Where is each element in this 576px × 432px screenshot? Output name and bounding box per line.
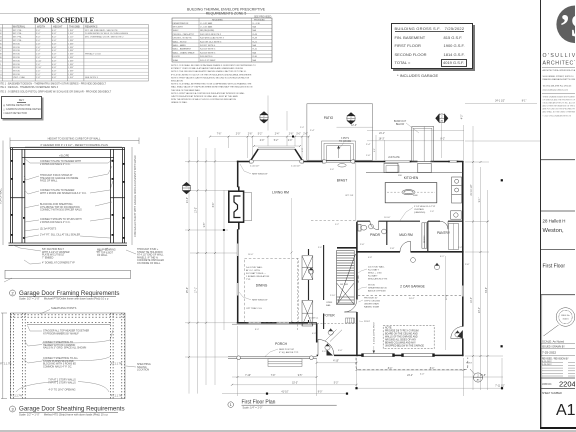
svg-text:4" DOWEL AT CORNERS TYP: 4" DOWEL AT CORNERS TYP — [42, 262, 75, 265]
svg-text:REVISED / REVISION BY: REVISED / REVISION BY — [542, 358, 569, 360]
svg-text:2'-6": 2'-6" — [303, 134, 308, 136]
svg-text:ARCHITECTS: ARCHITECTS — [543, 61, 576, 67]
svg-text:6'-8": 6'-8" — [52, 60, 57, 62]
svg-text:© 2022 O'SULLIVAN ARCHITECTS: © 2022 O'SULLIVAN ARCHITECTS — [543, 115, 572, 118]
svg-text:First Floor Plan: First Floor Plan — [242, 400, 276, 406]
svg-text:OF WALL: OF WALL — [97, 254, 108, 257]
leaders — [239, 123, 419, 357]
svg-text:2'-10": 2'-10" — [36, 67, 42, 69]
left dimension line — [2, 313, 4, 399]
svg-text:9-20-2022: 9-20-2022 — [542, 364, 552, 366]
svg-text:SLAB: SLAB — [173, 59, 179, 62]
dimension texts sides (rotated) — [187, 115, 488, 313]
svg-text:Weston,: Weston, — [543, 228, 565, 234]
leaders — [16, 326, 136, 393]
annotation texts — [40, 160, 164, 265]
svg-text:P.T.1.1.7%: P.T.1.1.7% — [111, 363, 123, 366]
svg-text:O'SULLIVAN: O'SULLIVAN — [543, 53, 576, 59]
svg-text:TYP AT 2 STORY WALLS: TYP AT 2 STORY WALLS — [48, 382, 76, 385]
svg-text:NEW POST W/: NEW POST W/ — [279, 349, 294, 351]
svg-text:1 3/4": 1 3/4" — [68, 33, 74, 35]
svg-text:MUD RM: MUD RM — [399, 233, 413, 237]
svg-text:ARCHITECTURE+INTERIORS+PLAN: ARCHITECTURE+INTERIORS+PLAN — [543, 69, 576, 72]
svg-text:JOB NO.: JOB NO. — [542, 383, 552, 386]
porch — [228, 324, 317, 359]
annotations — [0, 330, 151, 398]
svg-text:4'-0": 4'-0" — [420, 374, 425, 376]
svg-text:3'-0": 3'-0" — [338, 350, 343, 352]
svg-text:23'-0": 23'-0" — [479, 307, 481, 313]
svg-text:17'-1": 17'-1" — [196, 287, 198, 293]
svg-text:REG No: REG No — [561, 315, 570, 317]
svg-text:2'-6": 2'-6" — [248, 134, 253, 136]
svg-text:25'-4": 25'-4" — [187, 287, 189, 293]
svg-text:WOOD: WOOD — [13, 71, 20, 73]
svg-text:FACE OF WALL: FACE OF WALL — [40, 180, 58, 183]
svg-text:6'-8": 6'-8" — [52, 57, 57, 59]
svg-text:BFAST: BFAST — [337, 179, 347, 183]
svg-text:2'-8": 2'-8" — [36, 77, 41, 79]
svg-text:R-21 BATT: R-21 BATT — [368, 269, 379, 272]
svg-text:4'-10": 4'-10" — [333, 361, 339, 363]
stud connector markers — [11, 160, 125, 239]
svg-text:FENESTRATION: FENESTRATION — [173, 22, 189, 25]
svg-text:INSULATION: INSULATION — [171, 80, 183, 83]
svg-text:First Floor: First Floor — [543, 264, 566, 270]
svg-text:Scale: 1/4" = 1'-0": Scale: 1/4" = 1'-0" — [243, 406, 263, 409]
svg-text:8'-0": 8'-0" — [52, 37, 57, 39]
svg-text:2x6 STUD WALL: 2x6 STUD WALL — [368, 266, 385, 269]
svg-text:TYP.: TYP. — [246, 279, 251, 281]
svg-text:KITCHEN: KITCHEN — [404, 176, 419, 180]
svg-text:INSUL + 1 BD: INSUL + 1 BD — [368, 273, 382, 275]
svg-text:www.osullivanarchitects.com: www.osullivanarchitects.com — [543, 89, 569, 92]
svg-text:A1.: A1. — [556, 402, 575, 419]
svg-text:6'-8": 6'-8" — [52, 43, 57, 45]
svg-text:CONNECT WITH 5/16 SPACER NAILS: CONNECT WITH 5/16 SPACER NAILS — [40, 209, 82, 212]
svg-text:LIVING RM: LIVING RM — [272, 190, 289, 194]
svg-text:AROUND ALL SIDES OF ANY: AROUND ALL SIDES OF ANY — [385, 339, 417, 342]
svg-text:W/ 1 HR FIRE RATD. SEE NOTE: W/ 1 HR FIRE RATD. SEE NOTE — [85, 29, 118, 32]
garage door panels — [364, 354, 433, 357]
svg-text:7'-9": 7'-9" — [271, 375, 276, 377]
key legend box — [1, 96, 42, 119]
svg-text:WOOD: WOOD — [13, 54, 20, 56]
svg-text:9'-5": 9'-5" — [298, 375, 303, 377]
svg-text:21'-10 1/2": 21'-10 1/2" — [471, 184, 473, 195]
svg-text:SHEATHING AT 45: SHEATHING AT 45 — [368, 287, 388, 290]
svg-text:1 3/8": 1 3/8" — [68, 64, 74, 66]
svg-text:2 CAR GARAGE: 2 CAR GARAGE — [400, 285, 426, 289]
svg-text:8'-2": 8'-2" — [441, 139, 446, 141]
svg-text:3'-6": 3'-6" — [318, 247, 322, 249]
entry door leaf + porch steps — [327, 350, 334, 356]
bfast table + ceiling dash — [338, 164, 346, 167]
svg-text:8'-4": 8'-4" — [430, 368, 435, 370]
svg-text:2x6 STUD WALL: 2x6 STUD WALL — [246, 266, 263, 269]
right vertical dim — [131, 147, 133, 245]
svg-text:ISSUED / DRAWN BY: ISSUED / DRAWN BY — [542, 346, 565, 349]
svg-text:2204: 2204 — [559, 380, 575, 389]
svg-text:6'-8": 6'-8" — [52, 50, 57, 52]
nailing dash columns — [10, 313, 124, 399]
svg-text:2 ROWS 16D NAILS 4" O.C.: 2 ROWS 16D NAILS 4" O.C. — [40, 221, 71, 224]
svg-text:(2) 2x4 POSTS: (2) 2x4 POSTS — [40, 228, 57, 231]
title block — [540, 0, 576, 428]
svg-text:2'-0": 2'-0" — [236, 134, 241, 136]
architect stamp — [544, 308, 575, 336]
svg-text:19'-3": 19'-3" — [471, 297, 473, 303]
svg-text:AT PROGRAMMERS BY MANUF: AT PROGRAMMERS BY MANUF — [43, 332, 79, 335]
svg-text:ON INSIDE OF WALL: ON INSIDE OF WALL — [137, 262, 161, 265]
svg-text:24'-2": 24'-2" — [409, 298, 415, 300]
pantry shelving + interior dim lines — [449, 224, 459, 250]
powder room fixtures — [358, 223, 427, 248]
window end caps — [250, 160, 355, 163]
svg-text:16'-0": 16'-0" — [248, 254, 254, 256]
svg-text:115: 115 — [0, 77, 2, 79]
svg-text:R-30 NOTE 6: R-30 NOTE 6 — [200, 56, 213, 58]
svg-text:9'-1": 9'-1" — [479, 198, 481, 203]
svg-text:AT O.C. WITH: AT O.C. WITH — [246, 269, 260, 272]
svg-text:A: A — [186, 184, 188, 188]
PLAN_WALLS — [237, 149, 464, 356]
svg-text:SCALE: As Noted: SCALE: As Noted — [542, 339, 565, 343]
svg-text:POST: POST — [466, 363, 473, 365]
svg-text:WOOD: WOOD — [13, 57, 20, 59]
svg-text:SKYLIGHT: SKYLIGHT — [173, 27, 184, 29]
svg-text:24'-2": 24'-2" — [407, 375, 413, 377]
svg-text:5'-2": 5'-2" — [258, 134, 263, 136]
svg-text:2'-8": 2'-8" — [36, 54, 41, 56]
svg-text:NR (REQUIRE): NR (REQUIRE) — [200, 30, 215, 32]
floor plan — [180, 95, 542, 415]
kitchen fixtures — [366, 163, 463, 219]
black square markers — [223, 136, 503, 395]
svg-text:2'-10": 2'-10" — [36, 60, 42, 62]
svg-text:INT. PNL.: INT. PNL. — [13, 30, 23, 32]
svg-text:1 BOARD INSULATION: 1 BOARD INSULATION — [246, 275, 270, 278]
svg-text:U - 0.32 MAX: U - 0.32 MAX — [200, 22, 213, 25]
svg-text:PWDR: PWDR — [370, 233, 381, 237]
svg-text:VNYL CLAD: VNYL CLAD — [13, 76, 25, 79]
svg-text:2'-6": 2'-6" — [360, 244, 365, 246]
svg-text:INSULATION (TYP): INSULATION (TYP) — [368, 278, 388, 281]
svg-text:3'-0": 3'-0" — [36, 40, 41, 42]
svg-text:Tel (781) 438-6788 Fax (78: Tel (781) 438-6788 Fax (781) 43 — [543, 86, 573, 88]
svg-text:’S: ’S — [559, 9, 575, 45]
svg-text:5'-3": 5'-3" — [334, 383, 339, 385]
interior door swings — [318, 221, 463, 355]
svg-text:U - 0.30: U - 0.30 — [253, 23, 261, 25]
svg-text:6'-8": 6'-8" — [52, 40, 57, 42]
top dimension lines — [10, 140, 139, 142]
svg-text:3'-0": 3'-0" — [322, 351, 326, 353]
svg-text:NOTE:: NOTE: — [385, 328, 392, 330]
svg-text:BENCH: BENCH — [424, 235, 426, 243]
svg-text:PORCH: PORCH — [275, 342, 288, 346]
svg-text:21'-6": 21'-6" — [187, 197, 189, 203]
svg-text:5'-2": 5'-2" — [274, 140, 279, 142]
svg-text:P.T.1.1.7%: P.T.1.1.7% — [11, 395, 23, 398]
svg-text:PRIVACY LOCK: PRIVACY LOCK — [85, 53, 102, 56]
svg-text:1 3/8": 1 3/8" — [68, 40, 74, 42]
svg-text:READING MASSACHUSETTS 0186: READING MASSACHUSETTS 0186 — [543, 78, 576, 81]
svg-text:4'-0" TO 18'-0" OPENING: 4'-0" TO 18'-0" OPENING — [48, 389, 75, 392]
svg-text:UNDER STAIR: UNDER STAIR — [364, 303, 379, 306]
svg-text:NAILS IN 3" GRID. SPACE ALL SH: NAILS IN 3" GRID. SPACE ALL SHOWN — [43, 347, 86, 350]
main panel — [11, 313, 126, 399]
svg-text:2'-10": 2'-10" — [330, 295, 336, 297]
svg-text:6'-4": 6'-4" — [213, 203, 215, 208]
svg-text:2: 2 — [441, 115, 443, 119]
svg-text:OSULLIVAN ARCHITECTS INC. ALL: OSULLIVAN ARCHITECTS INC. ALL DES — [543, 102, 576, 105]
svg-text:HEIGHT TO EXISTING CURB TOP OF: HEIGHT TO EXISTING CURB TOP OF WALL — [48, 136, 101, 140]
garage door framing requirements diagram — [0, 136, 165, 307]
svg-text:2'-6": 2'-6" — [36, 47, 41, 49]
garage — [356, 295, 468, 370]
kitchen bumpout chimney — [412, 127, 434, 162]
svg-text:OPT. DR: OPT. DR — [345, 195, 354, 197]
O'Sullivan logo — [556, 6, 576, 44]
svg-text:PROVIDE 16": PROVIDE 16" — [364, 298, 378, 300]
svg-text:2: 2 — [477, 375, 479, 378]
svg-text:Garage Door Sheathing Requirem: Garage Door Sheathing Requirements — [19, 406, 125, 413]
svg-text:NOTE 1: R-39 SHALL BE USED IN: NOTE 1: R-39 SHALL BE USED IN PACKAGE WH… — [171, 64, 256, 67]
svg-text:21'-1": 21'-1" — [379, 133, 385, 135]
svg-text:EXTEND IT OVER OF WALLS AT EAV: EXTEND IT OVER OF WALLS AT EAVES PLATES … — [171, 67, 244, 70]
svg-text:PATIO: PATIO — [324, 116, 334, 120]
svg-text:THK/JMB: THK/JMB — [69, 25, 80, 28]
svg-text:WOOD: WOOD — [13, 74, 20, 76]
svg-text:3 PNTS: 3 PNTS — [341, 138, 350, 140]
svg-text:9'-6": 9'-6" — [330, 169, 334, 171]
svg-text:CEILING - NO ATTIC: CEILING - NO ATTIC — [173, 37, 193, 40]
svg-text:4 1/2x4 1/2 PSL POST: 4 1/2x4 1/2 PSL POST — [374, 321, 376, 344]
svg-text:6'-8": 6'-8" — [52, 30, 57, 32]
svg-text:CURTAIN: CURTAIN — [414, 208, 424, 211]
svg-text:UNOPPED BELOW IN THE GARAGE: UNOPPED BELOW IN THE GARAGE — [385, 345, 424, 348]
svg-text:CEILING - CATH ATTIC: CEILING - CATH ATTIC — [173, 33, 195, 36]
svg-text:COAT CL: COAT CL — [309, 317, 319, 320]
svg-text:POST: POST — [364, 321, 371, 323]
svg-text:28 Hallett H: 28 Hallett H — [543, 219, 566, 224]
svg-text:6'-8": 6'-8" — [52, 77, 57, 79]
title 1 — [228, 400, 337, 410]
svg-text:P.T.1.1.7%: P.T.1.1.7% — [111, 395, 123, 398]
svg-text:7'-10": 7'-10" — [245, 375, 251, 377]
svg-text:3'-0": 3'-0" — [36, 30, 41, 32]
sheet top border line — [0, 13, 320, 14]
svg-text:2'-8": 2'-8" — [390, 248, 395, 250]
svg-text:COMMON NAILS 4" P. OC.: COMMON NAILS 4" P. OC. — [43, 365, 72, 368]
svg-text:6'-8": 6'-8" — [52, 74, 57, 76]
svg-text:8'-0": 8'-0" — [255, 329, 259, 331]
svg-text:4" HEADER FOR 9' 1 9 1/2" - RE: 4" HEADER FOR 9' 1 9 1/2" - REFER TO FRA… — [40, 143, 108, 147]
svg-text:WALL - MASS: WALL - MASS — [173, 44, 187, 47]
svg-text:CONCEALED HEIGHT WITH GARAGE D: CONCEALED HEIGHT WITH GARAGE DOOR ALIGNM… — [134, 154, 137, 237]
svg-text:SHEATHING POINTS: SHEATHING POINTS — [51, 306, 77, 310]
windows (thin) — [237, 148, 463, 356]
svg-text:6'-8": 6'-8" — [52, 71, 57, 73]
svg-text:PROVIDE 5/8 TYPE X GYPSUM: PROVIDE 5/8 TYPE X GYPSUM — [385, 331, 419, 333]
svg-text:WOOD: WOOD — [13, 47, 20, 49]
svg-text:WALLS OF THE GARAGE AND: WALLS OF THE GARAGE AND — [385, 336, 418, 339]
svg-text:SHGC: SHGC — [173, 30, 179, 32]
svg-text:WALL - WOOD: WALL - WOOD — [173, 40, 187, 43]
svg-text:INT. PNL.: INT. PNL. — [13, 40, 23, 42]
svg-text:2: 2 — [11, 291, 13, 295]
svg-text:2"x4" P.T. SILL CILL AT SILL S: 2"x4" P.T. SILL CILL AT SILL SEALER — [40, 234, 80, 237]
svg-text:1 3/8": 1 3/8" — [68, 57, 74, 59]
svg-text:(LANDING): (LANDING) — [414, 211, 425, 214]
svg-text:1 3/8": 1 3/8" — [68, 67, 74, 69]
svg-text:5'-2": 5'-2" — [335, 224, 339, 226]
svg-text:NEW WINDOW: NEW WINDOW — [252, 174, 268, 176]
svg-text:7'-6": 7'-6" — [217, 134, 222, 136]
svg-text:16'-3": 16'-3" — [379, 139, 385, 141]
svg-text:DW: DW — [398, 175, 403, 177]
svg-text:1 3/8": 1 3/8" — [68, 60, 74, 62]
svg-text:8'-1": 8'-1" — [522, 101, 527, 103]
cased openings with X — [302, 256, 313, 326]
svg-text:1 3/8": 1 3/8" — [68, 47, 74, 49]
svg-text:8-15-2022: 8-15-2022 — [542, 361, 552, 363]
left vertical dim — [2, 141, 4, 246]
svg-text:2'-6": 2'-6" — [289, 134, 294, 136]
svg-text:7'-11 1/2": 7'-11 1/2" — [495, 385, 505, 387]
stairs — [337, 251, 356, 305]
dining tray ceiling dashed — [245, 259, 299, 323]
svg-text:2'-4": 2'-4" — [275, 134, 280, 136]
dimension texts bottom — [245, 361, 505, 394]
svg-text:OPEN: OPEN — [326, 302, 333, 304]
svg-text:RAISED STAIR: RAISED STAIR — [364, 306, 379, 309]
svg-text:7-25-2022: 7-25-2022 — [542, 350, 556, 354]
extra small texts — [248, 127, 462, 353]
svg-text:WOOD: WOOD — [13, 43, 20, 45]
svg-text:1 3/4": 1 3/4" — [68, 77, 74, 79]
svg-text:REMARKS: REMARKS — [85, 25, 98, 28]
svg-text:6'-8": 6'-8" — [52, 54, 57, 56]
svg-text:1'-10 1/2": 1'-10 1/2" — [250, 166, 259, 168]
svg-text:2 ROWS 10D NAILS 4" O.C.: 2 ROWS 10D NAILS 4" O.C. — [40, 163, 71, 166]
svg-text:A4: A4 — [440, 119, 443, 122]
svg-text:AND OTHER INFORMATION ON THE D: AND OTHER INFORMATION ON THE DR — [543, 105, 576, 108]
svg-text:THESE DRAWINGS ARE INSTRUMENTS: THESE DRAWINGS ARE INSTRUMENTS — [543, 96, 576, 99]
svg-text:6'-8": 6'-8" — [52, 64, 57, 66]
svg-text:R-4 BATT: R-4 BATT — [368, 275, 378, 278]
svg-text:3'-0": 3'-0" — [296, 134, 301, 136]
svg-text:PROVIDED: PROVIDED — [254, 19, 265, 21]
svg-text:REQUIRED: REQUIRED — [212, 19, 223, 21]
svg-text:BELOW: BELOW — [396, 124, 405, 126]
svg-text:WALL SHALL VALUE OF IT APPLIES: WALL SHALL VALUE OF IT APPLIES WHEN MORE… — [171, 86, 253, 89]
svg-text:GYP'D CEILING: GYP'D CEILING — [364, 301, 380, 303]
svg-text:R-49 (R38+5) AD NOTE 3: R-49 (R38+5) AD NOTE 3 — [200, 37, 225, 40]
svg-text:WALL - BASEMENT: WALL - BASEMENT — [173, 48, 192, 51]
interior partitions — [309, 221, 464, 329]
svg-text:41'-10": 41'-10" — [281, 391, 288, 393]
small annotations — [246, 130, 470, 354]
svg-text:2'-6": 2'-6" — [36, 64, 41, 66]
svg-text:LOCATION: LOCATION — [137, 369, 149, 372]
svg-text:1: 1 — [230, 403, 232, 407]
svg-text:1'-6": 1'-6" — [430, 211, 434, 213]
dimension texts top — [217, 101, 527, 159]
svg-text:PANTRY: PANTRY — [437, 231, 451, 235]
svg-text:R-21 BATT INSUL +: R-21 BATT INSUL + — [246, 272, 266, 275]
svg-text:OF SERVICE AND THE PROPERTY OF: OF SERVICE AND THE PROPERTY OF — [543, 99, 576, 102]
svg-text:R-20 OR 13+5 NOTE 3: R-20 OR 13+5 NOTE 3 — [200, 41, 222, 43]
svg-text:1 3/8": 1 3/8" — [68, 50, 74, 52]
svg-text:4'-0": 4'-0" — [302, 148, 304, 152]
svg-text:WOOD: WOOD — [13, 67, 20, 69]
svg-text:19'-8": 19'-8" — [480, 375, 486, 377]
svg-text:NOTE 3 : 9 SERIES SOLID PISTOL: NOTE 3 : 9 SERIES SOLID PISTOL GRIP HDWE… — [0, 91, 112, 94]
svg-text:1 3/8": 1 3/8" — [68, 74, 74, 76]
smoke/co detector symbols — [308, 224, 460, 350]
svg-text:SINK: SINK — [413, 195, 418, 197]
svg-text:SHEET NUMBER: SHEET NUMBER — [542, 392, 562, 395]
bottom photo edge — [0, 430, 576, 432]
includes garage note — [397, 73, 438, 78]
svg-text:AND SHALL NOT BE USED OTHERWIS: AND SHALL NOT BE USED OTHERWISE — [543, 111, 576, 114]
svg-text:WOOD: WOOD — [13, 64, 20, 66]
svg-text:MTL OVERHEAD DOOR. SEE NOTE 2: MTL OVERHEAD DOOR. SEE NOTE 2 — [85, 36, 124, 39]
svg-text:1 3/4": 1 3/4" — [68, 30, 74, 32]
svg-text:10'-10": 10'-10" — [384, 217, 391, 219]
svg-text:9'-8": 9'-8" — [204, 223, 206, 228]
svg-text:2'-6": 2'-6" — [465, 264, 470, 266]
svg-text:NOTE 4: R-19 SHALL BE PERMITTE: NOTE 4: R-19 SHALL BE PERMITTED TO BE CO… — [171, 83, 252, 86]
svg-text:R-10 2 FT DEEP: R-10 2 FT DEEP — [200, 60, 216, 62]
svg-text:2'-4": 2'-4" — [36, 50, 41, 52]
svg-text:6'-8": 6'-8" — [368, 257, 372, 259]
svg-text:9'-0": 9'-0" — [36, 37, 41, 39]
garage west wall annotations — [364, 266, 448, 345]
svg-text:WIDTH: WIDTH — [37, 25, 45, 28]
svg-text:R-15/19 NOTE 5: R-15/19 NOTE 5 — [200, 52, 216, 54]
svg-text:WOOD: WOOD — [13, 50, 20, 52]
svg-text:4'-2": 4'-2" — [461, 115, 463, 120]
svg-text:+SLOPE: +SLOPE — [59, 154, 69, 158]
svg-text:1'-10 1/2": 1'-10 1/2" — [291, 166, 300, 168]
section markers top — [182, 111, 483, 382]
svg-text:20 MIN RATED W/ SELF CLOSING H: 20 MIN RATED W/ SELF CLOSING HNGES — [85, 32, 129, 35]
svg-text:12'-9": 12'-9" — [446, 294, 448, 300]
leader lines — [4, 158, 136, 282]
door schedule table — [0, 14, 170, 105]
svg-text:15'-3": 15'-3" — [292, 383, 298, 385]
svg-text:2'-4": 2'-4" — [310, 130, 315, 132]
svg-text:ANGLE GYPSUM: ANGLE GYPSUM — [368, 290, 386, 293]
svg-text:2'-6": 2'-6" — [36, 57, 41, 59]
svg-text:MATERIAL: MATERIAL — [13, 25, 26, 28]
svg-text:2x6 PLATE: 2x6 PLATE — [388, 156, 400, 159]
frame walls — [9, 148, 128, 246]
svg-text:REQUIREMENTS ZONE 5: REQUIREMENTS ZONE 5 — [206, 12, 247, 16]
svg-text:A5: A5 — [477, 379, 480, 382]
svg-text:DN 16R: DN 16R — [340, 284, 348, 286]
svg-text:ARE FOR USE ON THE SPECIFIED P: ARE FOR USE ON THE SPECIFIED PRO — [543, 108, 576, 111]
garage door sheathing requirements diagram — [0, 300, 165, 425]
svg-text:1'-6": 1'-6" — [366, 155, 371, 157]
svg-text:2'-0": 2'-0" — [260, 140, 265, 142]
dimension lines — [185, 96, 540, 397]
svg-text:2'-4": 2'-4" — [300, 127, 304, 129]
svg-text:FOYER: FOYER — [323, 314, 335, 318]
